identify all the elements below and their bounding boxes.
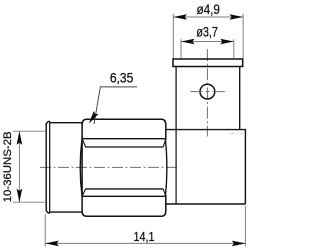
- neck and block top edge: [166, 129, 246, 131]
- thread dim line: [18, 131, 20, 202]
- hex nut outline: [82, 119, 166, 216]
- block left face edge: [175, 130, 177, 204]
- hex end arc right: [165, 139, 167, 197]
- hex edge line lower outer: [82, 195, 166, 197]
- dim 14.1 line: [45, 242, 245, 244]
- dim 3.7 arrow left: [181, 39, 195, 45]
- centerline vertical axis: [206, 49, 208, 137]
- barrel top edge: [50, 122, 82, 124]
- leader 6.35 line: [94, 87, 137, 124]
- hole crosshair: [190, 91, 225, 93]
- dim 14.1 ext line right: [244, 206, 246, 247]
- ring inner edge: [49, 121, 51, 213]
- svg-text:10-36UNS-2B: 10-36UNS-2B: [2, 131, 14, 202]
- hex edge line upper outer: [82, 138, 166, 140]
- svg-text:6,35: 6,35: [110, 71, 134, 87]
- tube left edge: [175, 67, 177, 130]
- hex chamfer slant bottom-left: [82, 189, 85, 196]
- block right edge: [244, 129, 246, 204]
- svg-text:14,1: 14,1: [134, 229, 155, 244]
- dim 3.7 ext line left: [180, 39, 182, 58]
- thread dim arrow up: [17, 131, 23, 145]
- hex edge line upper inner: [86, 146, 164, 148]
- ring front face outline: [46, 121, 50, 213]
- thread dim arrow down: [17, 189, 23, 203]
- hex edge line lower inner: [86, 188, 164, 190]
- dim 14.1 arrow left: [45, 241, 59, 247]
- hex end arc left: [80, 139, 82, 197]
- dim 14.1 arrow right: [232, 241, 246, 247]
- svg-text:ø4,9: ø4,9: [196, 2, 220, 18]
- hex chamfer slant bottom-right: [163, 189, 166, 196]
- tube right edge: [239, 67, 241, 130]
- dim 3.7 ext line right: [233, 39, 235, 58]
- cap: [173, 59, 243, 67]
- svg-text:ø3,7: ø3,7: [196, 25, 218, 41]
- thread dim ext line bottom: [13, 201, 45, 203]
- barrel bottom edge: [50, 211, 82, 213]
- dim 4.9 ext line right: [242, 14, 244, 59]
- dim 4.9 ext line left: [172, 14, 174, 59]
- dim 4.9 arrow left: [173, 14, 187, 20]
- neck and block bottom edge: [166, 203, 246, 205]
- hex chamfer slant top-right: [163, 139, 166, 147]
- dim 14.1 ext line left: [44, 214, 46, 247]
- thread dim ext line top: [13, 130, 45, 132]
- hex chamfer slant top-left: [82, 139, 85, 147]
- hole circle: [200, 84, 215, 99]
- dim 3.7 arrow right: [220, 39, 234, 45]
- faint hidden line near block top: [231, 133, 244, 135]
- dim 4.9 arrow right: [230, 14, 244, 20]
- dim 3.7 line: [181, 41, 234, 43]
- leader 6.35 arrow: [86, 111, 98, 125]
- dim 4.9 line: [173, 16, 243, 18]
- centerline horizontal axis: [40, 166, 180, 168]
